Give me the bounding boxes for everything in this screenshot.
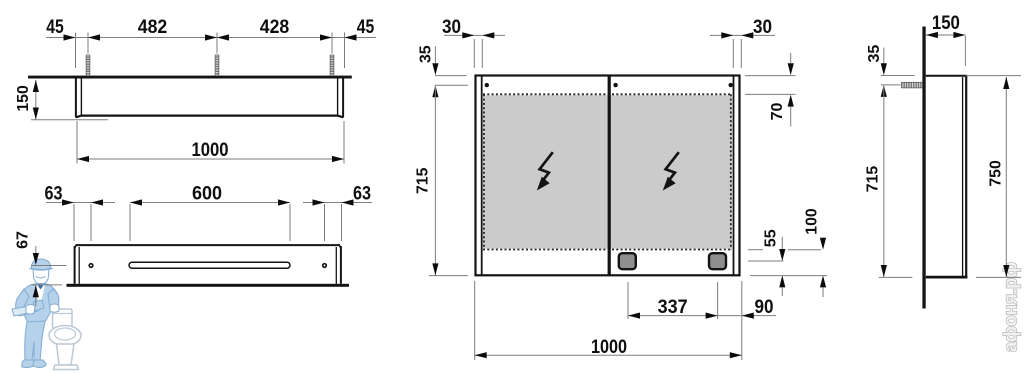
svg-text:35: 35 xyxy=(418,45,435,63)
svg-text:428: 428 xyxy=(260,17,290,38)
svg-text:70: 70 xyxy=(769,102,786,120)
svg-text:100: 100 xyxy=(804,208,821,235)
svg-text:35: 35 xyxy=(866,45,883,63)
svg-text:482: 482 xyxy=(138,17,168,38)
svg-text:45: 45 xyxy=(357,17,375,38)
svg-text:90: 90 xyxy=(755,297,774,318)
svg-text:1000: 1000 xyxy=(591,337,627,358)
svg-text:750: 750 xyxy=(988,160,1005,187)
svg-text:1000: 1000 xyxy=(192,140,229,161)
svg-text:67: 67 xyxy=(15,231,32,249)
svg-text:337: 337 xyxy=(658,297,688,318)
svg-text:715: 715 xyxy=(415,167,432,194)
svg-text:45: 45 xyxy=(46,17,64,38)
svg-text:715: 715 xyxy=(865,166,882,193)
svg-text:150: 150 xyxy=(15,85,32,112)
svg-text:30: 30 xyxy=(753,17,772,38)
svg-text:600: 600 xyxy=(192,184,222,205)
svg-text:55: 55 xyxy=(763,229,780,247)
svg-text:150: 150 xyxy=(932,13,960,34)
svg-text:афоня.рф: афоня.рф xyxy=(1001,262,1021,352)
svg-text:63: 63 xyxy=(353,184,371,205)
svg-text:63: 63 xyxy=(45,184,63,205)
svg-text:30: 30 xyxy=(442,17,461,38)
